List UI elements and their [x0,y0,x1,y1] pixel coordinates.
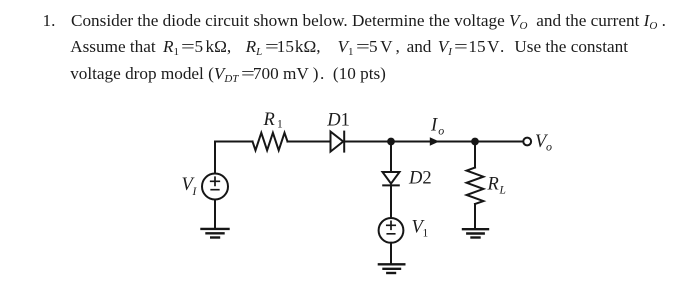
ground (RL) [463,229,488,237]
wire RL to ground [474,204,476,228]
source VI [202,174,228,200]
ground (VI) [202,229,229,238]
node A (junction dot) [387,138,395,146]
problem text line 2 [70,37,628,56]
diode D2 [383,172,400,184]
svg-text:L: L [499,185,506,197]
svg-text:1: 1 [423,228,429,240]
output terminal Vo [523,138,531,146]
wire between R1 and D1 [288,141,331,143]
resistor R1 [253,133,288,151]
svg-text:o: o [546,140,552,154]
ground (V1) [379,264,404,273]
resistor RL [467,168,484,205]
svg-text:R: R [487,175,499,195]
svg-text:I: I [430,116,438,136]
wire node B down to RL [474,142,476,168]
wire VI to ground [214,200,216,229]
svg-text:D1: D1 [326,110,350,130]
svg-text:o: o [438,124,444,138]
svg-text:D2: D2 [408,169,432,189]
wire node A down to D2 [390,142,392,172]
current arrow Io [430,137,439,146]
problem text line 3 [70,64,386,83]
wire left vertical to source VI [214,142,216,174]
node B (junction dot) [471,138,479,146]
svg-text:I: I [192,186,198,198]
problem text line 1 [43,11,56,30]
wire D1 to output terminal [344,141,523,143]
svg-text:1: 1 [277,119,283,131]
diode D1 [331,132,344,152]
wire D2 to source V1 [390,185,392,218]
source V1 [379,218,404,243]
wire V1 to ground [390,243,392,264]
wire top-left horizontal [215,141,253,143]
svg-text:R: R [263,110,275,130]
